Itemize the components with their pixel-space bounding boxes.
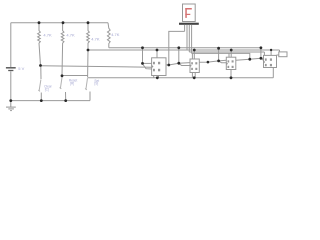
- flip-flop U1 box: [152, 58, 166, 76]
- svg-text:[C]: [C]: [45, 87, 49, 91]
- wire Q2 output line: [199, 60, 226, 62]
- switch S3 lever: [85, 78, 87, 90]
- node bus LA Q2 riser: [217, 47, 220, 50]
- wire bus LB elbow into indicator box: [279, 50, 281, 52]
- U1 clock chevron: [152, 65, 153, 67]
- U2 clock chevron: [190, 65, 191, 67]
- flip-flop U2 box: [190, 59, 199, 73]
- resistor R3 4.7K: [87, 23, 90, 50]
- resistor R1 4.7K: [38, 23, 41, 66]
- wire riser U2 top preset from bus LB: [193, 50, 195, 59]
- display pin1 drop: [184, 25, 186, 32]
- flip-flop U3 pin labels: [228, 60, 234, 68]
- resistor R2 4.7K: [61, 23, 64, 76]
- wire ground rail right end up to switch S3: [89, 92, 91, 101]
- wire riser J2K2 tap from bus LA: [178, 48, 180, 63]
- svg-text:4.7K: 4.7K: [111, 32, 120, 37]
- hex display box: [183, 4, 196, 22]
- flip-flop U2 pin labels: [191, 62, 197, 70]
- svg-text:4.7K: 4.7K: [91, 37, 100, 42]
- node bus LA J2K2: [177, 46, 180, 49]
- wire Q1 riser up to display pin1 elbow: [169, 31, 185, 65]
- ground symbol: [6, 101, 16, 111]
- wire U2 bottom pins to clear bus: [191, 73, 193, 78]
- hex display digit F: [185, 8, 192, 18]
- node ground symbol top: [9, 99, 12, 102]
- node top rail R2: [62, 21, 65, 24]
- wire bus LB preset from R3: [88, 49, 280, 51]
- node Q2 wire joint: [207, 61, 210, 64]
- wire U1 bottom pins to clear bus: [153, 76, 155, 78]
- node bus LA J4K4: [260, 46, 263, 49]
- wire bus LA J/K high from R4: [109, 47, 261, 49]
- wire bus LC elbow down to U4 top pin: [263, 52, 265, 55]
- wire clock4 diagonal feed: [262, 59, 264, 61]
- flip-flop U1 pin labels: [153, 62, 160, 72]
- U4 clock chevron: [264, 61, 265, 63]
- wire Q4 output to indicator box: [277, 54, 279, 56]
- wire riser U3 top preset from bus LB: [230, 50, 232, 57]
- hex display dark base bar: [179, 23, 199, 25]
- wire clear bus along bottom of flip-flops: [88, 77, 274, 79]
- wire clock line from R1/S1 junction to U1 clock input: [41, 66, 152, 68]
- wire ground rail: [11, 100, 90, 102]
- wire J1 feed into U1: [143, 62, 152, 64]
- node R3 bus tap: [87, 49, 90, 52]
- node R2 bottom: [61, 74, 64, 77]
- wire riser J1K1 tap from bus LA: [142, 48, 144, 64]
- resistor R4 4.7K: [107, 23, 110, 48]
- flip-flop U4 box: [264, 55, 277, 67]
- node top rail R1: [38, 21, 41, 24]
- wire R2 junction over to switch S3 column: [62, 75, 88, 77]
- node bus LB U1: [156, 49, 159, 52]
- node ground rail S1: [40, 99, 43, 102]
- wire U3 bottom pin to clear bus: [230, 70, 232, 78]
- svg-text:5 V: 5 V: [18, 66, 24, 71]
- node clear bus U2: [193, 76, 196, 79]
- node J1K1 fork: [141, 62, 144, 65]
- wire K1 feed diagonal into U1: [143, 64, 152, 69]
- wire riser U4 preset from bus LB: [270, 50, 272, 55]
- node bus LB U2: [193, 49, 196, 52]
- indicator box right of U4: [279, 52, 287, 57]
- wire Q1 output line: [166, 63, 190, 65]
- svg-text:[S]: [S]: [94, 81, 98, 85]
- wire LD segment and elbow down to Q3 line: [192, 53, 250, 59]
- svg-text:4.7K: 4.7K: [43, 33, 52, 38]
- wire R3 bottom continues down to switch S3 top: [87, 50, 89, 77]
- node Q3 J4K4: [260, 57, 263, 60]
- wire riser J4K4 tap from bus LA: [260, 48, 262, 59]
- wire bus LD from display pin4 to Q3 elbow: [191, 53, 193, 59]
- wire Q3 output line: [236, 58, 264, 60]
- node Q1 J2K2: [177, 62, 180, 65]
- display pin3 drop: [188, 25, 190, 52]
- switch S2 lever: [60, 77, 63, 89]
- wire clock2 diagonal feed: [179, 63, 190, 65]
- switch S1 lever: [40, 67, 42, 79]
- flip-flop U3 box: [226, 57, 236, 69]
- wire bus LC from display pin3: [189, 51, 264, 53]
- node top rail R3: [87, 21, 90, 24]
- display pin2 drop: [186, 25, 188, 50]
- node Q3 riser: [248, 58, 251, 61]
- flip-flop U4 pin labels: [265, 58, 272, 66]
- node R1 clock tap: [39, 64, 42, 67]
- node Q2 riser: [217, 60, 220, 63]
- U3 clock chevron: [226, 63, 227, 65]
- wire clear bus elbow up to U4 bottom pin: [272, 68, 274, 78]
- wire left rail battery top lead: [10, 23, 12, 67]
- wire Q2 riser up to bus LA: [218, 48, 220, 61]
- wire U3 second top riser: [228, 53, 230, 57]
- node ground rail S2: [64, 99, 67, 102]
- node clear bus U3: [230, 76, 233, 79]
- node bus LB U4: [270, 49, 272, 51]
- switch S3 bottom lead: [89, 92, 91, 94]
- wire battery bottom lead to ground rail: [10, 71, 12, 100]
- node clear bus U1: [156, 76, 159, 79]
- switch S2 bottom lead: [65, 92, 67, 101]
- wire top rail +5V: [11, 22, 108, 24]
- wire riser U1 top preset from bus LB: [156, 50, 158, 58]
- svg-text:4.7K: 4.7K: [66, 33, 75, 38]
- wire clock3 diagonal feed: [219, 61, 227, 63]
- display pin4 drop: [191, 25, 193, 54]
- node bus LA J1K1: [141, 46, 144, 49]
- battery V1: [6, 68, 16, 71]
- svg-text:[R]: [R]: [70, 81, 74, 85]
- node bus LB U3: [230, 49, 233, 52]
- switch S1 bottom lead: [40, 93, 42, 101]
- node Q1 display riser: [167, 64, 170, 67]
